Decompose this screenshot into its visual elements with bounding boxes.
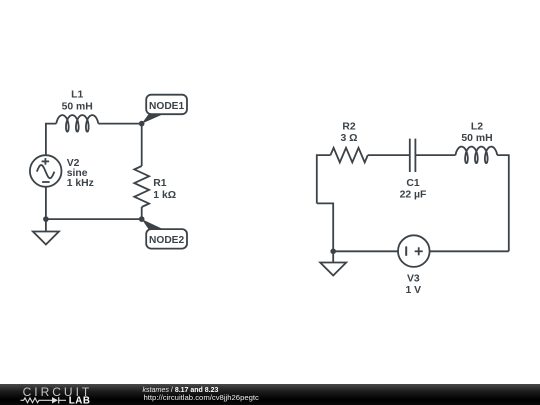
wire L1 to NODE1 junction — [98, 123, 141, 125]
svg-text:NODE2: NODE2 — [149, 235, 184, 246]
ground (right circuit) — [320, 251, 346, 275]
label NODE2 text — [149, 235, 184, 246]
label L2 value — [461, 122, 492, 144]
footer bar — [0, 384, 540, 405]
svg-text:V3: V3 — [407, 274, 420, 285]
attribution line 2 — [144, 393, 259, 402]
wire junction down to R1 — [141, 124, 143, 166]
wire R1 bottom to NODE2 junction — [141, 207, 143, 219]
svg-text:1 kHz: 1 kHz — [67, 178, 94, 189]
svg-text:R1: R1 — [153, 178, 167, 189]
junction dot top (NODE1) — [139, 121, 145, 127]
junction dot bottom (NODE2) — [139, 216, 145, 222]
svg-text:3 Ω: 3 Ω — [341, 133, 358, 144]
node NODE2 flag — [142, 219, 187, 249]
wire left jog down to ground node — [317, 203, 333, 251]
label C1 value — [400, 178, 427, 201]
wire ground node to V3 — [333, 250, 398, 252]
inductor L1 — [56, 115, 98, 132]
label R1 value — [153, 178, 176, 201]
svg-text:NODE1: NODE1 — [149, 101, 184, 112]
wire L2 to right corner down to bottom — [497, 155, 509, 251]
label R2 value — [341, 122, 358, 144]
attribution line 1 — [143, 387, 219, 394]
ground (left circuit) — [33, 219, 59, 244]
svg-text:L2: L2 — [471, 122, 483, 133]
wire V2 bottom to ground node — [45, 186, 47, 219]
capacitor C1 — [410, 139, 416, 172]
svg-text:22 µF: 22 µF — [400, 190, 427, 201]
voltage source V3 — [398, 235, 430, 267]
junction dot right circuit ground node — [330, 249, 336, 255]
CircuitLab logo — [0, 383, 140, 405]
svg-text:C1: C1 — [406, 178, 420, 189]
resistor R2 — [331, 148, 368, 163]
label NODE1 text — [149, 101, 184, 112]
svg-text:50 mH: 50 mH — [461, 133, 492, 144]
junction dot bottom-left (ground node) — [43, 216, 49, 222]
svg-text:1 kΩ: 1 kΩ — [153, 190, 176, 201]
wire V3 right side — [429, 250, 509, 252]
wire C1 to L2 — [415, 154, 455, 156]
label V3 value — [405, 274, 421, 296]
svg-text:LAB: LAB — [69, 395, 91, 405]
wire right-circuit top-left corner to R2 — [317, 155, 331, 203]
label L1 value — [62, 90, 93, 113]
wire top-left vertical (V2 top to corner) — [46, 124, 56, 156]
node NODE1 flag — [142, 95, 187, 124]
svg-text:50 mH: 50 mH — [62, 101, 93, 112]
label V2 value — [67, 158, 94, 189]
svg-text:R2: R2 — [342, 122, 356, 133]
wire R2 to C1 — [368, 154, 410, 156]
voltage source V2 — [30, 155, 62, 187]
resistor R1 — [134, 166, 149, 207]
svg-text:L1: L1 — [71, 90, 83, 101]
inductor L2 — [456, 147, 498, 164]
wire bottom (ground node to R1 bottom) — [46, 218, 142, 220]
svg-text:1 V: 1 V — [405, 285, 421, 296]
